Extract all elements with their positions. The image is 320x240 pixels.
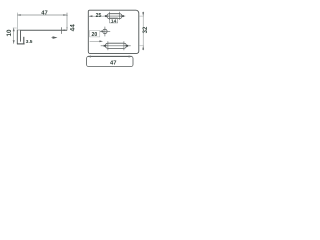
leader arrow small (52, 37, 57, 39)
dim 47 arrows (17, 14, 66, 16)
front view plate outline (88, 10, 139, 53)
dim 25 line (89, 15, 104, 17)
svg-text:3.5: 3.5 (26, 39, 33, 45)
dim 32 extension ticks (140, 16, 144, 46)
svg-text:14: 14 (111, 19, 117, 25)
bottom dim 47 box top edge (88, 55, 132, 57)
dim 32 line (142, 12, 144, 51)
dim 25 arrow (89, 15, 93, 17)
hole (103, 29, 107, 33)
svg-text:20: 20 (92, 32, 98, 38)
dim 14 arrows (105, 15, 124, 17)
bottom dim 47 box (87, 56, 133, 66)
extension / dim 44 line right (66, 13, 68, 31)
bracket upright plate (17, 30, 20, 45)
hole centre marks (100, 27, 110, 37)
bracket top leg main (20, 29, 67, 31)
dim 32 arrows (142, 12, 144, 49)
svg-text:25: 25 (96, 13, 102, 19)
bottom slot dim arrows (104, 45, 128, 47)
leader arrow below 20 (99, 40, 103, 42)
top slot centre marks (104, 12, 126, 20)
dim 20 box (90, 31, 100, 37)
bracket top leg (17, 29, 20, 31)
dim 20 arrow (101, 31, 105, 33)
leader line below 20 (90, 40, 102, 42)
bottom dim 47 arrows (87, 56, 133, 58)
extension line left (16, 13, 18, 29)
side view: dimension 47 top (18, 14, 67, 16)
bottom slot centre marks (101, 41, 131, 50)
svg-text:47: 47 (41, 10, 47, 16)
svg-text:47: 47 (110, 61, 116, 67)
svg-text:44: 44 (70, 24, 77, 32)
bottom slot (105, 43, 126, 48)
dim 14 box (110, 18, 118, 23)
top slot (107, 14, 122, 19)
svg-text:10: 10 (6, 29, 13, 36)
bracket bottom hook cap (17, 43, 25, 45)
svg-text:32: 32 (143, 26, 149, 33)
dim 10 arrows (13, 28, 15, 44)
dim 44 arrows (66, 13, 68, 30)
dim 10 ticks (13, 27, 17, 29)
leg end junction dot (64, 29, 67, 31)
dim 10 line (13, 28, 15, 44)
bracket hook lip (23, 37, 25, 44)
dim 20 stub line (100, 30, 102, 32)
tick on leg (61, 27, 63, 34)
